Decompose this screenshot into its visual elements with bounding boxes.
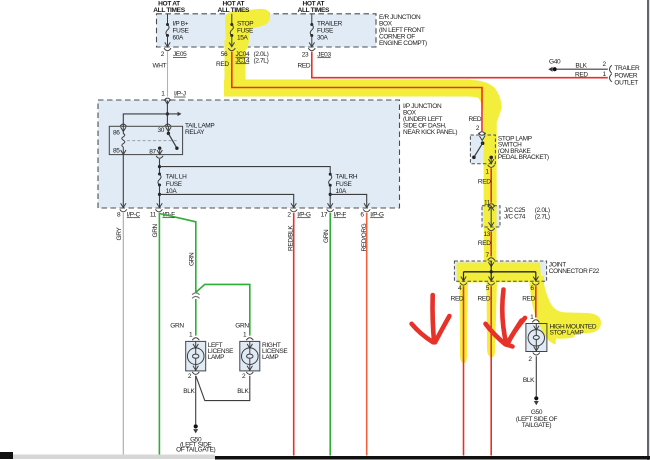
label left license lamp — [208, 342, 234, 361]
svg-text:FUSE: FUSE — [336, 181, 353, 188]
svg-text:RED: RED — [478, 240, 491, 247]
svg-text:I/P B+: I/P B+ — [173, 20, 189, 27]
relay coil — [122, 134, 125, 148]
wire branch arrow to other circuits — [167, 112, 181, 116]
pin 2 of right license lamp — [242, 372, 253, 380]
svg-text:FUSE: FUSE — [173, 27, 190, 34]
annotation highlight tail along right side of high mounted stop lamp — [540, 306, 558, 345]
svg-text:RELAY: RELAY — [185, 129, 205, 136]
label J/C C25 / J/C C74 — [504, 207, 550, 221]
svg-text:BLK: BLK — [183, 388, 195, 395]
pin 1 of high mounted stop lamp — [530, 314, 539, 322]
annotation highlight over STOP FUSE label — [225, 9, 270, 51]
pin 11 connector I/P-F — [150, 209, 175, 218]
wire from relay 87 down — [159, 159, 161, 174]
label right license lamp — [262, 342, 288, 361]
scrollbar thumb bottom left — [0, 452, 13, 459]
svg-text:PEDAL BRACKET): PEDAL BRACKET) — [498, 154, 549, 161]
svg-text:15A: 15A — [237, 34, 249, 41]
svg-text:TAIL LH: TAIL LH — [166, 173, 187, 180]
annotation highlight sweep from wire 6 over HIGH MOUNTED STOP LAMP label — [530, 276, 602, 336]
svg-text:87: 87 — [149, 148, 156, 155]
svg-text:GRN: GRN — [235, 323, 249, 330]
svg-text:G50: G50 — [531, 409, 543, 416]
svg-text:RED: RED — [451, 295, 464, 302]
scrollbar track — [13, 455, 215, 460]
I/P junction box fill — [98, 100, 400, 208]
pin 2 of left license lamp — [188, 372, 199, 380]
wire RED/BLK from pin 2 down — [287, 213, 294, 456]
fuse TRAILER FUSE 30A — [309, 14, 343, 47]
ground G50 (left side of tailgate) at high mounted stop lamp — [516, 396, 558, 429]
wire BLK from high mounted stop lamp to G50 — [523, 356, 536, 396]
svg-text:ALL TIMES: ALL TIMES — [153, 7, 185, 14]
svg-text:ALL TIMES: ALL TIMES — [298, 7, 330, 14]
annotation highlight along joint connector wire 5 — [487, 282, 498, 357]
svg-text:RED: RED — [522, 295, 535, 302]
svg-text:OUTLET: OUTLET — [614, 80, 638, 87]
joint connector F22 box fill — [454, 261, 546, 281]
label high mounted stop lamp — [550, 324, 597, 337]
wire BLK from G40 to trailer power outlet — [557, 63, 608, 70]
svg-text:FUSE: FUSE — [237, 27, 254, 34]
relay mechanical link (dashed) — [127, 140, 177, 142]
pin 1 connector I/P-J — [161, 91, 185, 101]
wire RED from switch to J/C — [478, 168, 491, 202]
wire GRN from pin 11 straight down — [152, 213, 160, 456]
svg-text:BLK: BLK — [237, 388, 249, 395]
svg-text:NEAR KICK PANEL): NEAR KICK PANEL) — [403, 129, 457, 136]
wire RED from TRAILER fuse to trailer power outlet — [298, 52, 608, 78]
svg-text:(2.7L): (2.7L) — [254, 57, 269, 64]
wire WHT from JE05 to I/P-J — [153, 52, 168, 97]
wire RED/ORG from pin 6 down — [361, 213, 368, 456]
svg-text:23: 23 — [302, 51, 309, 58]
svg-text:CONNECTOR F22: CONNECTOR F22 — [549, 268, 600, 275]
svg-text:RED/ORG: RED/ORG — [361, 223, 368, 251]
pin 2 connector I/P-G — [287, 209, 310, 218]
wire branch to pin 2 — [160, 194, 294, 207]
svg-text:RED: RED — [298, 63, 311, 70]
label tail lamp relay — [185, 123, 214, 136]
pin 2 connector JE05 — [161, 48, 187, 58]
node junction under tail lh fuse — [158, 193, 161, 196]
annotation highlight along joint connector wire 4 — [460, 282, 469, 363]
svg-text:30: 30 — [157, 127, 164, 134]
pin 4 of joint connector F22 — [458, 283, 467, 293]
E/R junction box label — [379, 14, 427, 47]
svg-text:RED: RED — [216, 61, 229, 68]
svg-text:56: 56 — [221, 51, 228, 58]
wire GRN branch from splice to right license lamp — [196, 284, 250, 335]
annotation highlight along horizontal red wire to stop lamp switch and down to joint connector — [224, 80, 502, 264]
svg-text:GRN: GRN — [189, 252, 196, 266]
svg-text:RED: RED — [575, 71, 588, 78]
connector under relay pin 87 — [156, 156, 163, 159]
svg-text:WHT: WHT — [153, 62, 167, 69]
svg-text:TAIL RH: TAIL RH — [336, 173, 358, 180]
wire GRY from pin 8 down — [116, 213, 123, 456]
svg-text:RED: RED — [478, 295, 491, 302]
pin 6 connector I/P-G — [360, 209, 383, 218]
wire RED from pin 5 down — [478, 286, 492, 455]
node junction under tail rh fuse — [329, 193, 332, 196]
wire RED from pin 6 to high mounted stop lamp — [522, 286, 536, 317]
svg-text:STOP LAMP: STOP LAMP — [550, 330, 584, 337]
E/R junction box fill — [157, 14, 377, 47]
pin 17 connector I/P-F — [321, 209, 347, 218]
wire GRN from splice to left license lamp — [195, 299, 197, 336]
lamp high mounted stop lamp — [526, 324, 547, 352]
svg-text:30A: 30A — [317, 34, 329, 41]
svg-text:BLK: BLK — [523, 377, 535, 384]
connector cap above relay pin 30 — [164, 124, 171, 127]
pin 1 of right license lamp — [243, 332, 253, 341]
label stop lamp switch — [498, 135, 549, 161]
svg-text:GRY: GRY — [116, 227, 123, 241]
svg-text:I/P-J: I/P-J — [174, 91, 186, 98]
svg-text:I/P-G: I/P-G — [297, 211, 311, 218]
label joint connector F22 — [549, 262, 600, 276]
fuse TAIL RH FUSE 10A — [329, 173, 358, 208]
svg-text:TRAILER: TRAILER — [614, 65, 640, 72]
annotation highlight tail below swoosh — [548, 331, 576, 339]
pin 5 of joint connector F22 — [486, 283, 495, 293]
svg-text:RED: RED — [469, 116, 482, 123]
svg-text:FUSE: FUSE — [166, 181, 183, 188]
svg-text:I/P-G: I/P-G — [370, 211, 384, 218]
svg-text:LAMP: LAMP — [262, 354, 278, 361]
stop lamp switch box fill — [470, 135, 495, 164]
pin 1 of left license lamp — [189, 332, 199, 341]
connector joint connector F22 — [454, 261, 546, 281]
switch S1 stop lamp switch — [470, 135, 495, 164]
splice on GRN wire — [192, 293, 200, 299]
svg-text:RED: RED — [478, 178, 491, 185]
connector cap above relay pin 86 — [120, 124, 127, 127]
wire GRN from pin 17 down — [323, 213, 330, 456]
pin 7 of joint connector F22 — [486, 252, 495, 260]
fuse STOP FUSE 15A — [229, 14, 254, 47]
J/C connector box fill — [482, 206, 500, 227]
svg-text:LAMP: LAMP — [208, 354, 224, 361]
svg-text:BLK: BLK — [575, 63, 587, 70]
node HOT AT ALL TIMES (STOP fuse) — [218, 1, 250, 14]
pin 2 of high mounted stop lamp — [528, 353, 539, 364]
svg-text:85: 85 — [113, 147, 120, 154]
annotation arrow right (hand drawn) — [486, 290, 526, 347]
node HOT AT ALL TIMES (I/P B+ fuse) — [153, 1, 185, 14]
page bottom border — [215, 456, 650, 460]
wire from relay 85 to pin 8 — [122, 155, 124, 208]
pin 23 connector JE03 — [302, 48, 332, 58]
svg-text:POWER: POWER — [614, 72, 637, 79]
pin 1 of stop lamp switch — [485, 165, 494, 176]
fuse I/P B+ FUSE 60A — [165, 14, 190, 47]
relay contact 87 — [158, 147, 161, 150]
svg-text:RED/BLK: RED/BLK — [287, 225, 294, 251]
svg-text:11: 11 — [150, 211, 157, 218]
svg-text:STOP: STOP — [237, 20, 253, 27]
pin 56 connector JC04 (2.0L) / JC14 (2.7L) — [221, 48, 269, 64]
svg-text:I/P-F: I/P-F — [334, 211, 347, 218]
component trailer power outlet — [575, 61, 640, 86]
pin 13 of J/C — [483, 228, 494, 238]
wire branch left to relay pin 86 — [123, 114, 167, 126]
svg-text:OF TAILGATE): OF TAILGATE) — [176, 447, 215, 454]
joint connector internal bus — [464, 271, 536, 273]
high mounted stop lamp box fill — [526, 324, 547, 352]
svg-text:60A: 60A — [173, 34, 185, 41]
svg-text:ENGINE COMPT): ENGINE COMPT) — [379, 40, 427, 47]
annotation highlight along STOP fuse red wire vertical — [225, 40, 246, 85]
wire from I/P-J pin into tail lamp relay — [165, 100, 170, 127]
wire RED from pin 4 down — [451, 286, 464, 455]
wire RED from STOP fuse to stop lamp switch — [216, 52, 482, 131]
svg-text:FUSE: FUSE — [317, 27, 334, 34]
svg-text:17: 17 — [321, 211, 328, 218]
annotation highlight over joint connector F22 bus — [457, 263, 542, 283]
wire GRN from pin 11 jog to license lamps — [159, 213, 196, 292]
svg-text:JC14: JC14 — [236, 57, 251, 64]
fuse TAIL LH FUSE 10A — [158, 173, 187, 208]
I/P junction box label — [403, 103, 457, 136]
ground G50 (left side of tailgate) at license lamps — [176, 424, 215, 453]
page right border — [647, 0, 649, 460]
svg-text:TRAILER: TRAILER — [317, 20, 343, 27]
svg-text:GRN: GRN — [323, 229, 330, 243]
svg-text:(2.7L): (2.7L) — [535, 214, 550, 221]
svg-text:13: 13 — [483, 231, 490, 238]
lamp left license lamp — [186, 341, 206, 371]
lamp right license lamp — [240, 341, 260, 371]
relay K1 tail lamp relay — [109, 126, 182, 155]
wire BLK link from right license lamp — [196, 376, 250, 401]
connector J/C C25 (2.0L) / J/C C74 (2.7L) — [482, 206, 500, 227]
pin 8 connector I/P-C — [117, 209, 140, 218]
wire branch to pin 6 — [330, 194, 367, 207]
node HOT AT ALL TIMES (TRAILER fuse) — [298, 1, 330, 14]
ground G40 — [548, 58, 561, 71]
relay switch contact 30 — [167, 132, 170, 135]
svg-text:G40: G40 — [549, 58, 561, 65]
annotation arrow left (hand drawn) — [412, 295, 450, 342]
wire RED from J/C to joint connector F22 — [478, 232, 491, 257]
wire BLK from left license lamp to G50 — [183, 376, 195, 425]
svg-text:I/P-C: I/P-C — [127, 211, 141, 218]
svg-text:GRN: GRN — [170, 323, 184, 330]
svg-text:86: 86 — [113, 129, 120, 136]
pin 2 of stop lamp switch — [476, 125, 486, 135]
node junction to tail rh fuse feed — [158, 165, 161, 168]
node junction above relay — [166, 112, 169, 115]
pin 6 of joint connector F22 — [530, 283, 539, 293]
pin 11 of J/C — [484, 200, 495, 207]
svg-text:JE05: JE05 — [173, 51, 187, 58]
svg-text:TAILGATE): TAILGATE) — [522, 422, 552, 429]
svg-text:J/C C74: J/C C74 — [504, 214, 526, 221]
wire feed to tail rh fuse — [160, 167, 331, 175]
svg-text:ALL TIMES: ALL TIMES — [218, 7, 250, 14]
svg-text:JE03: JE03 — [317, 51, 331, 58]
svg-text:GRN: GRN — [152, 223, 159, 237]
